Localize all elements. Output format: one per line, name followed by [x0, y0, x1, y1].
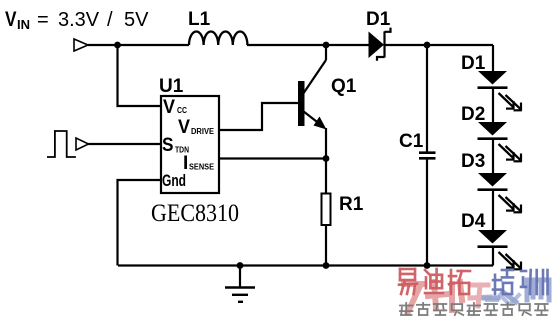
svg-text:D3: D3 [461, 151, 485, 172]
svg-text:SENSE: SENSE [189, 163, 215, 172]
node ground rail R1 junction [323, 262, 330, 269]
pulse input symbol [47, 131, 76, 157]
svg-text:GEC8310: GEC8310 [151, 200, 239, 227]
svg-text:=: = [37, 9, 49, 31]
svg-text:S: S [162, 135, 174, 156]
svg-text:D4: D4 [461, 211, 486, 232]
LED D1 [478, 71, 522, 122]
svg-text:L1: L1 [188, 9, 211, 30]
diode D1 (Schottky) [369, 28, 391, 61]
capacitor C1 [419, 45, 436, 266]
svg-text:V: V [5, 8, 17, 31]
LED D4 [478, 230, 522, 270]
wire D1 to output node [386, 44, 494, 46]
wire output to LED chain [492, 45, 494, 71]
svg-text:R1: R1 [339, 194, 364, 215]
svg-text:IN: IN [17, 17, 30, 32]
svg-text:CC: CC [177, 106, 187, 115]
node Q1 collector junction [323, 42, 330, 49]
svg-text:5V: 5V [124, 9, 149, 31]
svg-text:U1: U1 [159, 76, 184, 97]
svg-text:/: / [107, 9, 113, 31]
svg-text:D1: D1 [461, 53, 486, 74]
wire ground rail [118, 264, 493, 266]
node output junction top [424, 42, 431, 49]
wire VIN to U1 Vcc [118, 45, 162, 106]
IC U1 body [161, 96, 219, 193]
wire R1 to ground rail [325, 225, 327, 266]
transistor Q1 [298, 45, 327, 130]
wire STDN [89, 143, 162, 145]
resistor R1 [322, 194, 331, 226]
inductor L1 [189, 31, 247, 45]
node STDN input terminal [76, 138, 89, 150]
svg-text:3.3V: 3.3V [58, 9, 100, 31]
svg-text:D2: D2 [461, 104, 485, 125]
node VIN junction [114, 42, 121, 49]
svg-text:D1: D1 [366, 9, 391, 30]
node VIN input terminal [74, 39, 88, 51]
LED D3 [478, 173, 522, 230]
wire top rail left [88, 44, 189, 46]
node ground rail C1 junction [424, 262, 431, 269]
watermark [399, 269, 549, 315]
node ground symbol junction [237, 262, 244, 269]
wire U1 Gnd to ground rail [118, 180, 162, 266]
wire ISENSE to emitter node [219, 157, 326, 159]
svg-text:V: V [163, 97, 175, 118]
LED D2 [478, 122, 522, 173]
svg-text:DRIVE: DRIVE [191, 127, 215, 136]
svg-text:Q1: Q1 [331, 76, 357, 97]
wire emitter to R1 [325, 128, 327, 194]
wire L1 to D1 [247, 44, 369, 46]
svg-text:C1: C1 [399, 131, 424, 152]
svg-text:Gnd: Gnd [162, 171, 186, 190]
ground [225, 266, 255, 302]
wire VDRIVE to Q1 base [219, 103, 298, 130]
svg-text:V: V [178, 117, 190, 138]
node emitter junction [323, 155, 330, 162]
